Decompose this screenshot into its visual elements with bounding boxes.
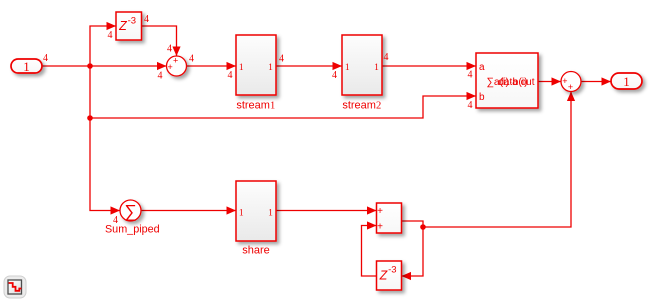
wire stream1 to stream2: [276, 65, 342, 67]
sum S2: [561, 72, 581, 93]
arrow into stream1: [227, 62, 237, 70]
svg-text:1: 1: [239, 208, 244, 218]
svg-text:4: 4: [113, 215, 118, 226]
wire input to sum S1: [42, 65, 167, 67]
svg-text:1: 1: [623, 74, 630, 89]
svg-text:1: 1: [268, 208, 273, 218]
svg-text:+: +: [173, 56, 178, 66]
svg-text:4: 4: [167, 44, 172, 55]
arrow left into delay Z-3 bottom input: [402, 272, 412, 280]
arrow into add A1 first input: [367, 206, 377, 214]
svg-text:b: b: [479, 92, 485, 103]
svg-text:-3: -3: [128, 15, 136, 26]
subsystem share: [236, 181, 276, 257]
svg-text:+: +: [568, 82, 573, 92]
svg-text:4: 4: [332, 70, 337, 81]
arrow into share: [227, 206, 237, 214]
svg-text:4: 4: [384, 52, 389, 63]
arrow down into sum S1 top: [172, 47, 180, 57]
svg-text:Z: Z: [379, 269, 388, 283]
delay block Z-3 bottom: [377, 261, 402, 290]
subsystem stream1: [236, 35, 276, 112]
wire node B to dot product port b: [90, 96, 476, 118]
wire delay Z-3 bottom feedback to add A1: [362, 226, 377, 277]
svg-text:1: 1: [23, 59, 30, 74]
wire sum S1 to stream1: [187, 65, 237, 67]
svg-text:1: 1: [345, 63, 350, 73]
svg-text:+: +: [377, 221, 383, 232]
svg-text:4: 4: [468, 70, 473, 81]
svg-text:4: 4: [108, 30, 113, 41]
arrow up into sum S2 bottom: [567, 92, 575, 102]
arrow into delay Z-3 top: [107, 22, 117, 30]
svg-text:4: 4: [189, 54, 194, 65]
arrow into add A1 second input: [367, 221, 377, 229]
sum S1: [167, 56, 187, 76]
svg-text:4: 4: [158, 71, 163, 82]
svg-text:Z: Z: [118, 19, 127, 33]
sample time badge icon: [4, 276, 26, 298]
subsystem stream2: [342, 35, 382, 112]
outport Out1: [611, 73, 642, 89]
svg-text:1: 1: [374, 63, 379, 73]
svg-text:∑: ∑: [124, 201, 136, 221]
wire add A1 output to node C and delay Z-3 bottom: [402, 221, 424, 276]
arrow into dot product port b: [467, 92, 477, 100]
svg-text:a: a: [479, 62, 485, 73]
svg-text:4: 4: [228, 70, 233, 81]
wire share to add A1: [276, 210, 377, 212]
wire node C up into sum S2: [423, 92, 571, 228]
svg-text:data out: data out: [498, 77, 534, 88]
svg-text:4: 4: [144, 14, 149, 25]
svg-text:stream2: stream2: [342, 100, 381, 112]
svg-text:4: 4: [279, 54, 284, 65]
svg-text:4: 4: [468, 100, 473, 111]
svg-text:+: +: [167, 62, 172, 72]
node C junction dot: [420, 224, 426, 230]
arrow into outport: [602, 77, 612, 85]
wire delay Z-3 output down into sum S1: [142, 26, 177, 56]
svg-text:-3: -3: [388, 265, 396, 276]
node A junction dot: [87, 63, 93, 69]
svg-text:+: +: [377, 206, 383, 217]
svg-text:1: 1: [239, 63, 244, 73]
wire sum S2 to outport: [581, 81, 611, 83]
svg-text:1: 1: [268, 63, 273, 73]
add block A1: [377, 203, 402, 233]
svg-text:+: +: [562, 76, 567, 86]
wire dot product out to sum S2: [538, 81, 561, 83]
arrow into stream2: [333, 62, 343, 70]
inport In1: [11, 59, 42, 74]
dot product subsystem U1: [476, 53, 538, 108]
wire branch vertical down from node A to Sum_piped row: [90, 66, 120, 211]
sum Sum_piped: [105, 200, 160, 236]
wire Sum_piped to share: [141, 210, 236, 212]
arrow into Sum_piped: [111, 206, 121, 214]
svg-text:4: 4: [43, 53, 48, 64]
arrow into dot product port a: [467, 62, 477, 70]
wire stream2 to dot product port a: [382, 65, 476, 67]
node B junction dot: [87, 115, 93, 121]
arrow into sum S1 left: [157, 62, 167, 70]
svg-text:share: share: [242, 245, 270, 257]
svg-text:stream1: stream1: [236, 100, 275, 112]
delay block Z-3 top: [116, 12, 142, 40]
wire branch up to delay Z-3 top: [90, 26, 116, 66]
arrow into sum S2 left: [552, 77, 562, 85]
